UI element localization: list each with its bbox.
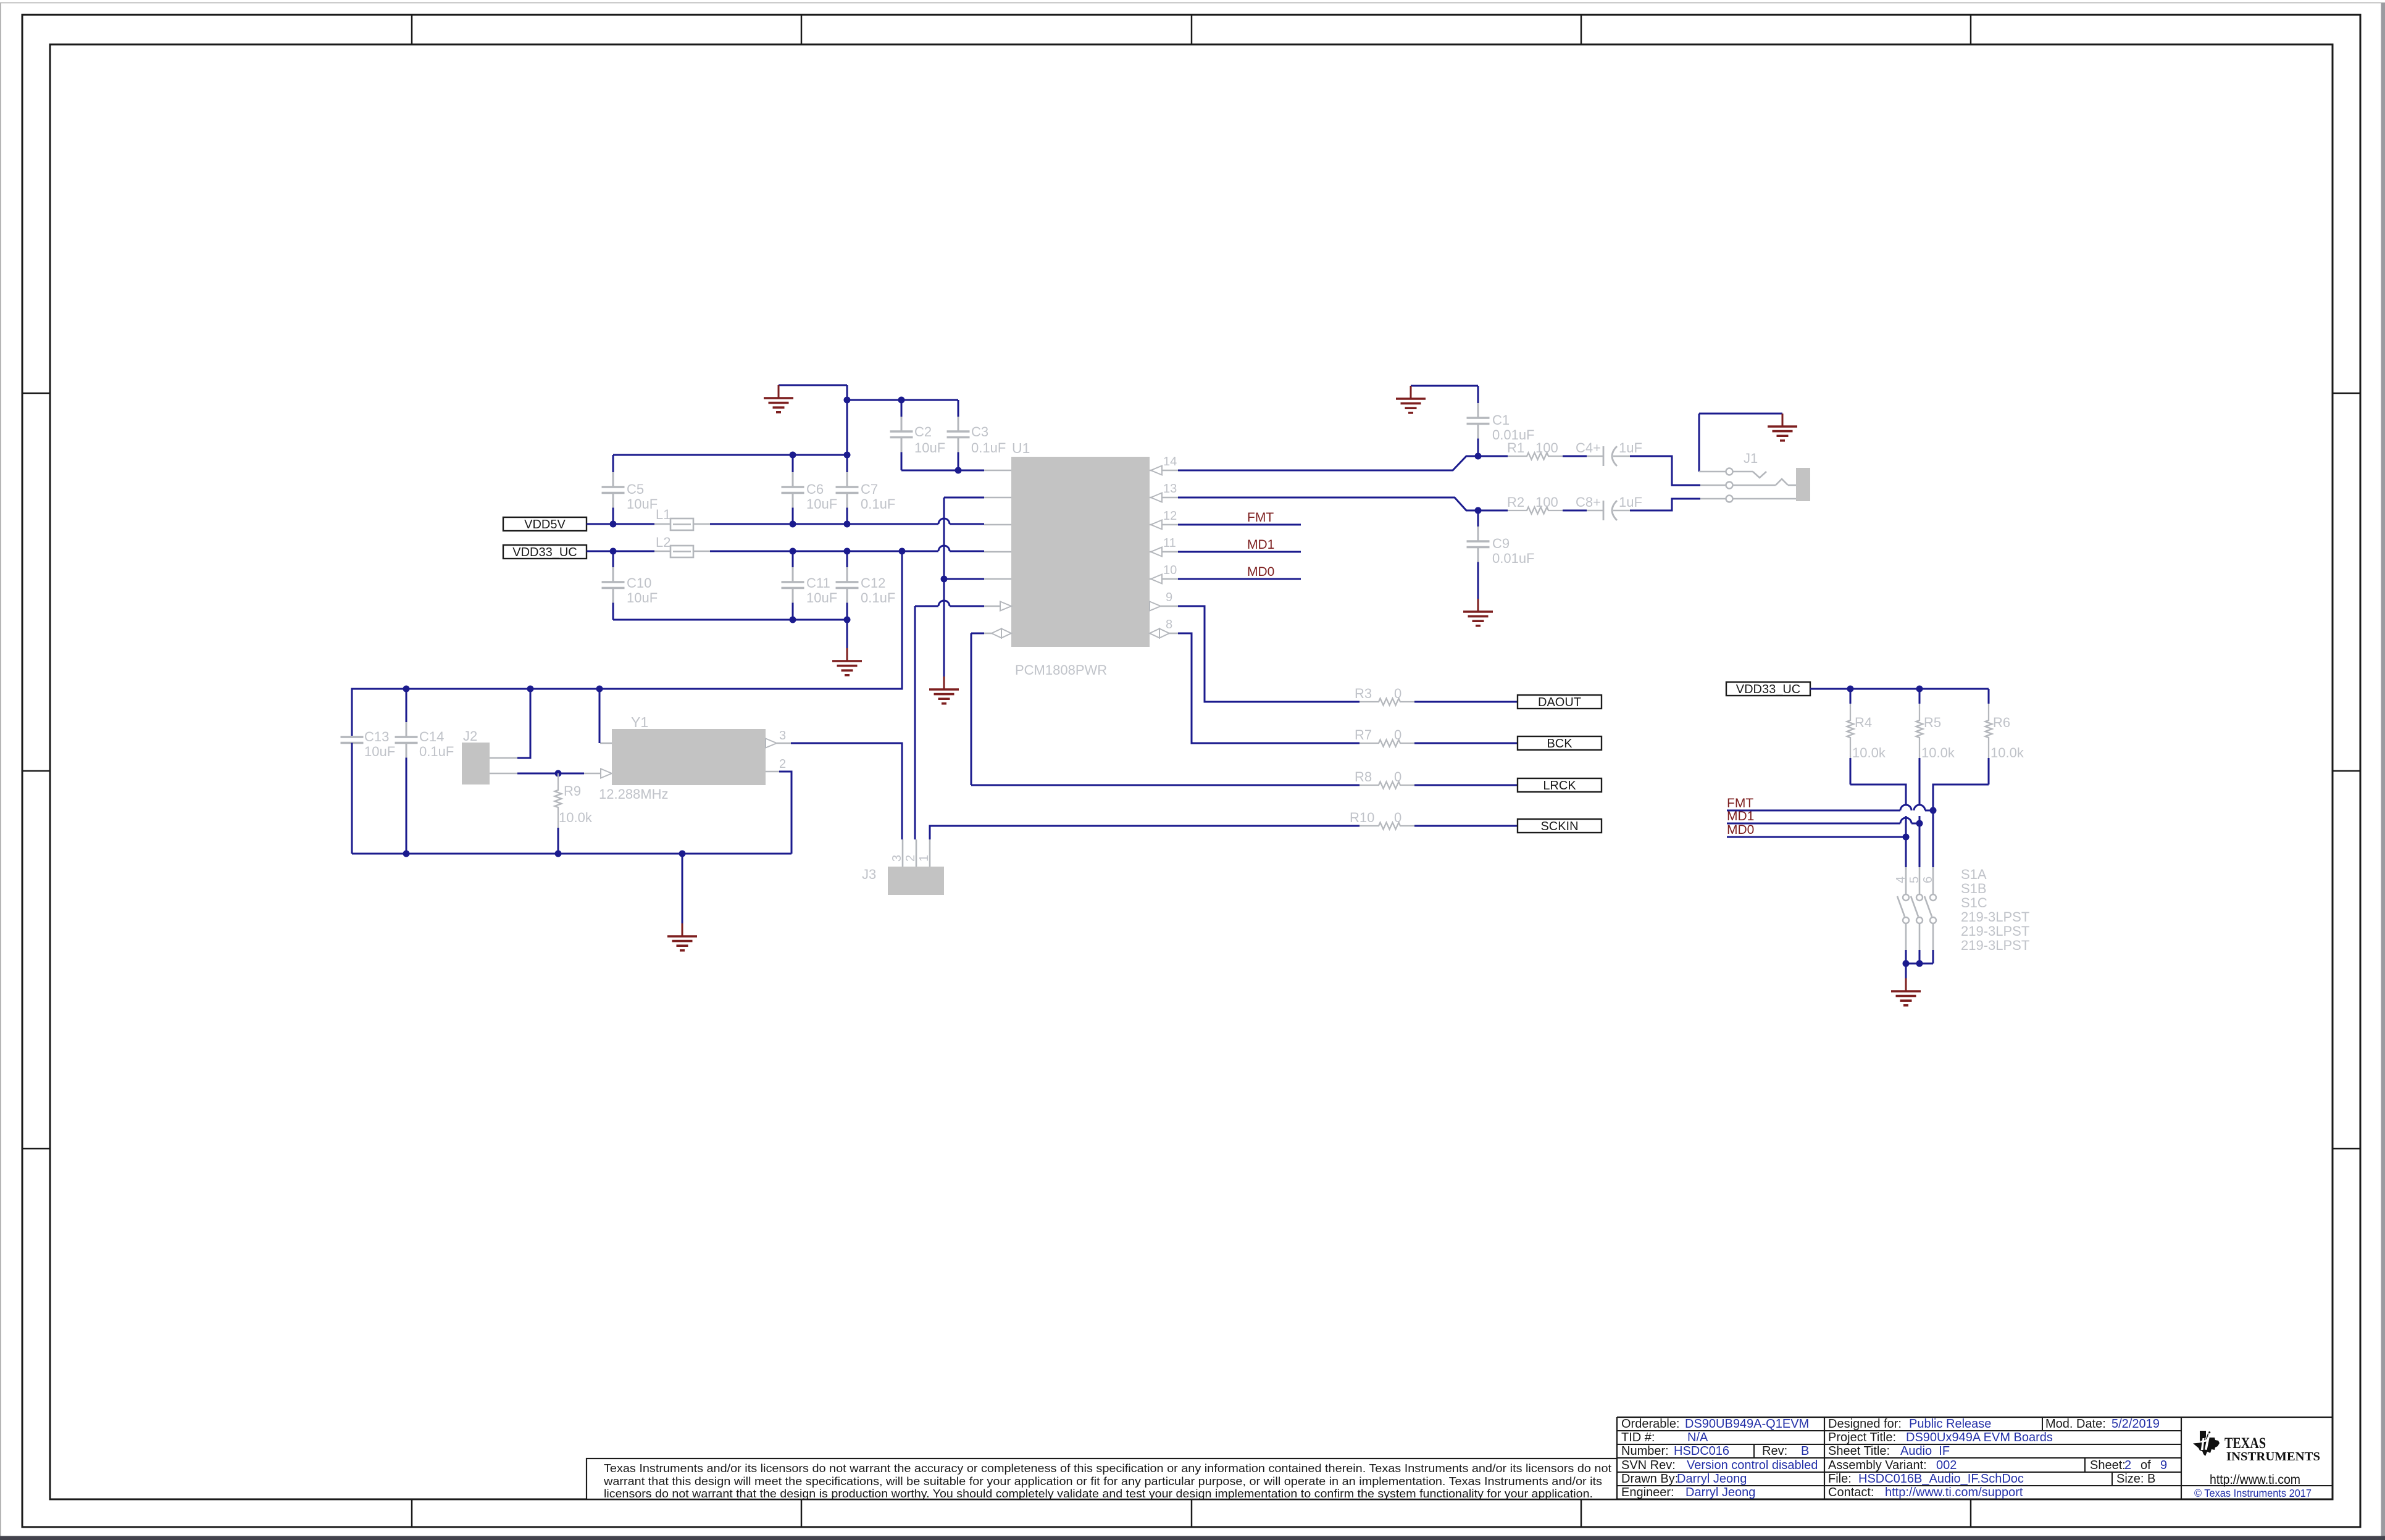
- port VDD33_UC: [503, 545, 587, 559]
- svg-text:C6: C6: [806, 481, 824, 497]
- U1 left pin stubs 1-5: [984, 470, 1011, 472]
- svg-text:Darryl Jeong: Darryl Jeong: [1685, 1486, 1755, 1499]
- svg-text:6: 6: [1921, 876, 1935, 883]
- junction dots bottom rail: [790, 617, 796, 623]
- ground U1 pins 2/5: [943, 676, 945, 689]
- resistor R5: [1919, 689, 1921, 704]
- resistor R8: [1360, 782, 1414, 789]
- svg-text:5/2/2019: 5/2/2019: [2111, 1417, 2160, 1431]
- wire crystal bottom rail: [352, 853, 792, 855]
- svg-text:Sheet Title:: Sheet Title:: [1828, 1444, 1890, 1458]
- ground below C9: [1477, 599, 1479, 612]
- wire R5 to S1B column: [1919, 758, 1921, 805]
- svg-text:219-3LPST: 219-3LPST: [1961, 909, 2029, 925]
- svg-text:Size: B: Size: B: [2116, 1472, 2155, 1486]
- inductor L2: [670, 546, 693, 557]
- svg-text:FMT: FMT: [1247, 510, 1274, 525]
- svg-text:8: 8: [1166, 618, 1172, 631]
- svg-text:FMT: FMT: [1727, 796, 1753, 810]
- svg-text:© Texas Instruments 2017: © Texas Instruments 2017: [2194, 1487, 2312, 1499]
- capacitor C10: [612, 551, 614, 567]
- wire U1 pin13 to R2: [1178, 497, 1508, 510]
- switch S1A: [1905, 867, 1907, 894]
- svg-text:LRCK: LRCK: [1543, 779, 1576, 793]
- svg-text:100: 100: [1535, 440, 1558, 456]
- svg-text:TEXAS: TEXAS: [2224, 1435, 2266, 1452]
- svg-text:R5: R5: [1924, 715, 1941, 730]
- svg-text:Sheet:: Sheet:: [2090, 1459, 2126, 1472]
- svg-text:R6: R6: [1993, 715, 2010, 730]
- svg-text:0.1uF: 0.1uF: [419, 744, 454, 759]
- svg-text:0.1uF: 0.1uF: [861, 496, 895, 512]
- svg-text:10uF: 10uF: [914, 440, 945, 456]
- capacitor C3: [958, 400, 959, 417]
- wire VDD5V rail: [587, 523, 654, 525]
- svg-text:219-3LPST: 219-3LPST: [1961, 923, 2029, 939]
- port VDD5V: [503, 517, 587, 531]
- wire switch common rail: [1906, 963, 1933, 965]
- wire U1 pin7 to LRCK: [971, 633, 984, 635]
- wire VDD33 pullup rail: [1810, 688, 1989, 690]
- svg-text:N/A: N/A: [1687, 1431, 1708, 1444]
- svg-text:13: 13: [1163, 482, 1177, 496]
- wire C2/C3 top rail: [847, 399, 958, 401]
- capacitor C6: [792, 455, 794, 472]
- svg-text:3: 3: [779, 729, 786, 743]
- svg-text:R9: R9: [564, 783, 581, 799]
- page edge shading: [0, 2, 2385, 4]
- svg-text:002: 002: [1936, 1459, 1957, 1472]
- svg-text:C10: C10: [627, 575, 651, 591]
- ground below C12: [846, 620, 848, 648]
- capacitor C5: [612, 455, 614, 472]
- junction dot C1/R1: [1475, 453, 1482, 460]
- svg-text:Darryl Jeong: Darryl Jeong: [1677, 1472, 1747, 1486]
- capacitor C13: [341, 736, 364, 738]
- svg-text:warrant that this design will: warrant that this design will meet the s…: [603, 1475, 1602, 1488]
- svg-text:4: 4: [1894, 876, 1908, 883]
- capacitor C9: [1477, 510, 1479, 527]
- svg-text:MD1: MD1: [1727, 809, 1754, 823]
- junction dots crystal top rail: [403, 686, 410, 693]
- U1 left pin 6 stub with input arrow: [984, 606, 1000, 607]
- svg-text:12.288MHz: 12.288MHz: [599, 786, 669, 802]
- wire C4 to J1 pin2: [1630, 456, 1700, 485]
- svg-text:10: 10: [1163, 564, 1177, 577]
- junction dots top rail: [790, 452, 796, 459]
- svg-text:Drawn By:: Drawn By:: [1621, 1472, 1678, 1486]
- svg-text:S1A: S1A: [1961, 867, 1987, 882]
- svg-text:C5: C5: [627, 481, 644, 497]
- svg-text:10uF: 10uF: [364, 744, 395, 759]
- capacitor C7: [846, 455, 848, 472]
- svg-text:R1: R1: [1507, 440, 1524, 456]
- wire GND3 to J1 pin1: [1698, 414, 1700, 472]
- junction dots switch rail: [1903, 960, 1910, 967]
- wire Y1 pin2 to bottom rail: [766, 771, 779, 773]
- TI logo: [2193, 1431, 2220, 1456]
- resistor R6: [1988, 689, 1990, 704]
- svg-text:1uF: 1uF: [1619, 494, 1642, 510]
- net label MD1 pin11: [1178, 551, 1301, 553]
- svg-text:R7: R7: [1355, 727, 1372, 743]
- svg-text:VDD33_UC: VDD33_UC: [1736, 683, 1800, 696]
- svg-text:U1: U1: [1012, 440, 1030, 456]
- svg-text:of: of: [2141, 1459, 2151, 1472]
- svg-text:0.1uF: 0.1uF: [971, 440, 1006, 456]
- ground GND1: [779, 385, 847, 386]
- svg-text:C12: C12: [861, 575, 885, 591]
- IC U1 PCM1808PWR body: [1011, 457, 1150, 647]
- switch S1C: [1932, 867, 1934, 894]
- svg-text:Texas Instruments and/or its l: Texas Instruments and/or its licensors d…: [604, 1462, 1611, 1475]
- resistor R7: [1360, 740, 1414, 747]
- svg-text:Assembly Variant:: Assembly Variant:: [1828, 1459, 1927, 1472]
- junction dot C9/R2: [1475, 507, 1482, 514]
- svg-text:2: 2: [2124, 1459, 2131, 1472]
- svg-text:R2: R2: [1507, 494, 1524, 510]
- svg-text:R4: R4: [1855, 715, 1872, 730]
- capacitor C2: [901, 400, 903, 417]
- resistor R10: [1360, 823, 1414, 830]
- svg-text:Contact:: Contact:: [1828, 1486, 1874, 1499]
- svg-text:C4+: C4+: [1576, 440, 1601, 456]
- capacitor C11: [792, 551, 794, 567]
- junction dots VDD5V rail: [610, 521, 617, 528]
- net label MD0 pin10: [1178, 578, 1301, 580]
- wire J3 pin1 to R10: [930, 826, 1360, 839]
- wire U1 pin14 to R1: [1178, 456, 1508, 470]
- svg-text:R8: R8: [1355, 769, 1372, 785]
- svg-text:SVN Rev:: SVN Rev:: [1621, 1459, 1676, 1472]
- svg-text:9: 9: [2160, 1459, 2167, 1472]
- svg-text:BCK: BCK: [1547, 737, 1573, 751]
- port DAOUT: [1518, 695, 1602, 709]
- U1 right pin stubs 14-10 with input arrows: [1150, 470, 1178, 472]
- capacitor C1: [1477, 386, 1479, 403]
- wire U1 pin2 to ground: [944, 497, 984, 499]
- svg-text:J2: J2: [463, 728, 477, 744]
- svg-text:Y1: Y1: [631, 714, 648, 730]
- svg-text:1: 1: [917, 855, 931, 862]
- svg-text:Rev:: Rev:: [1762, 1444, 1787, 1458]
- svg-text:VDD33_UC: VDD33_UC: [512, 546, 577, 559]
- inductor L1: [670, 518, 693, 530]
- svg-text:Orderable:: Orderable:: [1621, 1417, 1680, 1431]
- junction dot C3 bottom: [955, 467, 962, 474]
- svg-text:Mod. Date:: Mod. Date:: [2045, 1417, 2106, 1431]
- svg-text:Project Title:: Project Title:: [1828, 1431, 1896, 1444]
- svg-text:INSTRUMENTS: INSTRUMENTS: [2226, 1450, 2320, 1463]
- svg-text:Version control disabled: Version control disabled: [1687, 1459, 1818, 1472]
- net FMT wire: [1727, 810, 1900, 812]
- disclaimer box: [587, 1459, 1617, 1499]
- svg-text:C2: C2: [914, 424, 932, 439]
- svg-text:VDD5V: VDD5V: [524, 518, 566, 531]
- wire R7 to BCK: [1414, 743, 1518, 744]
- svg-text:http://www.ti.com: http://www.ti.com: [2210, 1473, 2300, 1487]
- svg-text:10uF: 10uF: [806, 590, 837, 606]
- svg-text:C7: C7: [861, 481, 878, 497]
- connector J3 body: [888, 867, 944, 895]
- svg-text:10uF: 10uF: [627, 590, 658, 606]
- svg-text:219-3LPST: 219-3LPST: [1961, 938, 2029, 953]
- wire Y1 upper-left pin to rail: [600, 743, 612, 744]
- title block grid: [1616, 1417, 1618, 1499]
- svg-text:HSDC016: HSDC016: [1674, 1444, 1729, 1458]
- svg-text:SCKIN: SCKIN: [1540, 820, 1578, 833]
- svg-text:DAOUT: DAOUT: [1538, 696, 1581, 709]
- svg-text:L2: L2: [656, 535, 670, 550]
- svg-text:Designed for:: Designed for:: [1828, 1417, 1902, 1431]
- svg-text:DS90Ux949A EVM Boards: DS90Ux949A EVM Boards: [1906, 1431, 2053, 1444]
- svg-text:TID #:: TID #:: [1621, 1431, 1655, 1444]
- resistor R1: [1508, 453, 1563, 460]
- wire R8 to LRCK: [1414, 785, 1518, 786]
- port SCKIN: [1518, 819, 1602, 833]
- svg-text:0: 0: [1394, 769, 1401, 785]
- svg-text:MD0: MD0: [1247, 565, 1274, 579]
- svg-text:Engineer:: Engineer:: [1621, 1486, 1674, 1499]
- svg-text:0.01uF: 0.01uF: [1492, 551, 1535, 566]
- svg-text:11: 11: [1163, 536, 1176, 550]
- svg-text:5: 5: [1908, 876, 1921, 883]
- svg-text:C1: C1: [1492, 412, 1510, 428]
- wire U1 pin5: [944, 578, 984, 580]
- svg-text:Number:: Number:: [1621, 1444, 1669, 1458]
- net label FMT pin12: [1178, 524, 1301, 526]
- U1 right pin 8 stub with bidir arrows: [1169, 633, 1178, 635]
- crystal Y1 body: [612, 729, 766, 785]
- svg-text:10.0k: 10.0k: [559, 810, 593, 825]
- svg-text:C11: C11: [806, 575, 830, 591]
- wire U1 pin6 to J3 pin2: [950, 606, 984, 607]
- svg-text:2: 2: [904, 855, 917, 862]
- junction dots crystal bottom rail: [403, 851, 410, 857]
- junction dot R9 top: [555, 770, 562, 777]
- svg-text:10.0k: 10.0k: [1921, 745, 1955, 760]
- wire U1 pin9 to R3: [1178, 606, 1360, 702]
- svg-text:14: 14: [1163, 455, 1177, 468]
- svg-text:C9: C9: [1492, 536, 1510, 551]
- svg-text:10.0k: 10.0k: [1990, 745, 2024, 760]
- wire J2 pin1 to rail: [490, 757, 517, 759]
- svg-text:12: 12: [1163, 509, 1177, 523]
- svg-text:10uF: 10uF: [627, 496, 658, 512]
- svg-text:3: 3: [890, 855, 904, 862]
- resistor R9: [555, 773, 562, 828]
- wire R3 to DAOUT: [1414, 701, 1518, 703]
- svg-text:S1C: S1C: [1961, 895, 1987, 910]
- svg-text:0: 0: [1394, 810, 1401, 825]
- wire GND1 to decoupling rail: [846, 385, 848, 455]
- svg-text:S1B: S1B: [1961, 881, 1987, 896]
- connector J2 body: [462, 743, 490, 785]
- capacitor C8 polarized: [1587, 510, 1603, 512]
- wire C8 to J1 pin3: [1630, 499, 1700, 510]
- svg-text:C13: C13: [364, 729, 389, 744]
- svg-text:DS90UB949A-Q1EVM: DS90UB949A-Q1EVM: [1685, 1417, 1809, 1431]
- resistor R2: [1508, 507, 1563, 514]
- wire VDD33_UC rail: [587, 551, 654, 552]
- svg-text:Public Release: Public Release: [1909, 1417, 1991, 1431]
- svg-text:PCM1808PWR: PCM1808PWR: [1015, 662, 1107, 678]
- junction dots pullup rail: [1847, 686, 1854, 693]
- svg-text:MD0: MD0: [1727, 823, 1754, 837]
- wire R1 to C4: [1563, 456, 1587, 457]
- svg-text:0.1uF: 0.1uF: [861, 590, 895, 606]
- ground GND3: [1699, 413, 1782, 415]
- wire J2 pin2 to Y1: [490, 773, 517, 775]
- svg-text:9: 9: [1166, 591, 1172, 604]
- wire R6 to S1C column: [1988, 758, 1990, 785]
- junction dots C2/C3 top: [844, 397, 851, 404]
- resistor R3: [1360, 699, 1414, 705]
- wire R4 to S1A column: [1850, 758, 1852, 785]
- svg-text:MD1: MD1: [1247, 538, 1274, 552]
- ground GND2: [1411, 385, 1478, 387]
- svg-text:10.0k: 10.0k: [1852, 745, 1886, 760]
- wire crystal top rail: [352, 551, 902, 736]
- wire top rail AVDD: [613, 454, 847, 456]
- resistor R4: [1850, 689, 1852, 704]
- svg-text:L1: L1: [656, 507, 670, 522]
- svg-text:10uF: 10uF: [806, 496, 837, 512]
- J3 pin stubs: [902, 839, 904, 867]
- svg-text:Audio IF: Audio IF: [1900, 1444, 1950, 1458]
- ground below crystal rail: [682, 854, 683, 923]
- junction dots VDD33 rail: [610, 548, 617, 555]
- wire U1 pin8 to R7: [1178, 633, 1360, 743]
- wire R9 to bottom rail: [558, 828, 559, 854]
- svg-text:J1: J1: [1744, 451, 1758, 466]
- wire C2/C3 bottom to U1 pin1: [901, 470, 984, 472]
- U1 left pin 7 stub with bidir arrows: [984, 633, 992, 635]
- net MD0 wire: [1727, 836, 1906, 838]
- wire R2 to C8: [1563, 510, 1587, 512]
- capacitor C12: [846, 551, 848, 567]
- svg-text:licensors do not warrant that: licensors do not warrant that the design…: [604, 1488, 1593, 1500]
- svg-text:2: 2: [779, 757, 786, 771]
- svg-text:1uF: 1uF: [1619, 440, 1642, 456]
- svg-text:HSDC016B_Audio_IF.SchDoc: HSDC016B_Audio_IF.SchDoc: [1858, 1472, 2024, 1486]
- U1 right pin 9 stub with output arrow: [1161, 606, 1178, 607]
- junction dot pin5 net: [941, 576, 948, 583]
- svg-text:R10: R10: [1350, 810, 1374, 825]
- svg-text:C14: C14: [419, 729, 444, 744]
- svg-text:http://www.ti.com/support: http://www.ti.com/support: [1885, 1486, 2023, 1499]
- svg-text:0: 0: [1394, 686, 1401, 701]
- svg-text:J3: J3: [862, 867, 876, 882]
- wire R10 to SCKIN: [1414, 825, 1518, 827]
- capacitor C4 polarized: [1587, 456, 1603, 457]
- svg-text:File:: File:: [1828, 1472, 1852, 1486]
- net MD1 wire: [1727, 823, 1900, 825]
- svg-text:R3: R3: [1355, 686, 1372, 701]
- svg-text:B: B: [1801, 1444, 1809, 1458]
- port LRCK: [1518, 778, 1602, 792]
- port VDD33_UC right: [1726, 682, 1810, 696]
- port BCK: [1518, 736, 1602, 750]
- wire decoupling bottom rail: [613, 619, 847, 621]
- wire Y1 pin3 to J3 pin3: [766, 739, 777, 748]
- capacitor C14: [406, 689, 407, 722]
- svg-text:100: 100: [1535, 494, 1558, 510]
- svg-text:0: 0: [1394, 727, 1401, 743]
- ground below switches: [1905, 964, 1907, 978]
- svg-text:C8+: C8+: [1576, 494, 1601, 510]
- svg-text:C3: C3: [971, 424, 988, 439]
- switch S1B: [1919, 867, 1921, 894]
